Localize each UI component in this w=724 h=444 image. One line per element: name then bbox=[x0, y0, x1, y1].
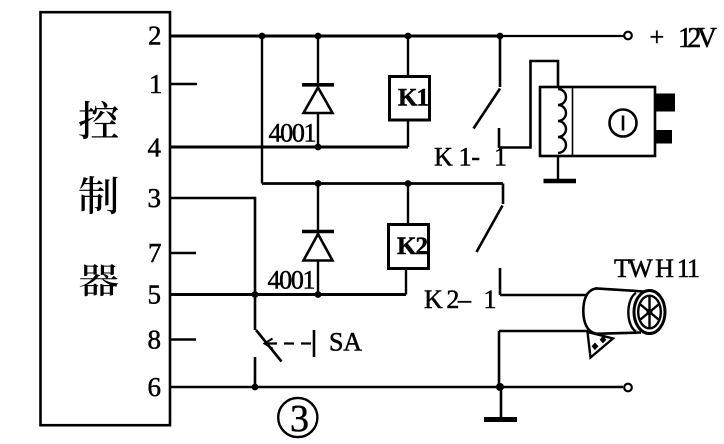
horn HA1 body bbox=[583, 288, 644, 334]
svg-text:+: + bbox=[650, 23, 665, 52]
motor M1 ground bar bbox=[544, 179, 577, 184]
horn HA1 rim arc bbox=[628, 293, 636, 332]
svg-text:8: 8 bbox=[148, 325, 162, 355]
relay coil K2 lead bottom bbox=[405, 269, 407, 295]
junction pin2/K1 bbox=[405, 33, 412, 40]
svg-text:1: 1 bbox=[149, 69, 163, 99]
relay coil K1 lead bottom bbox=[407, 120, 409, 147]
motor M1 feed wire from K1-1 bbox=[499, 61, 558, 148]
switch SA actuator dashed link bbox=[267, 342, 312, 344]
svg-text:TW H 11: TW H 11 bbox=[614, 254, 700, 283]
wire pin8 stub bbox=[171, 338, 196, 340]
horn HA1 bracket rivet 2 bbox=[600, 336, 607, 344]
figure number circle 3 bbox=[278, 398, 317, 437]
svg-text:3: 3 bbox=[290, 398, 309, 440]
wire vertical branch from pin2 bbox=[261, 36, 263, 184]
junction pin2/K1-1 bbox=[497, 33, 504, 40]
diode D1 lead bottom bbox=[317, 113, 319, 147]
switch K1-1 upper lead bbox=[499, 36, 502, 87]
controller box U1 bbox=[41, 12, 171, 425]
supply terminal circle bbox=[624, 32, 632, 40]
diode D1 cathode bar bbox=[302, 83, 334, 87]
switch K2-1 blade bbox=[477, 206, 503, 253]
motor M1 symbol bar bbox=[622, 116, 625, 131]
wire pin7 stub bbox=[171, 252, 196, 254]
svg-text:4001: 4001 bbox=[268, 266, 316, 295]
svg-text:6: 6 bbox=[148, 372, 162, 402]
diode D1 lead top bbox=[317, 36, 319, 84]
label 控 bbox=[79, 101, 118, 139]
junction branch/D2 bbox=[315, 180, 322, 187]
switch K1-1 lower contact bbox=[498, 128, 501, 148]
wire pin6 ground rail bbox=[171, 386, 623, 388]
svg-text:K 2–: K 2– bbox=[424, 285, 472, 314]
horn HA1 grille outer bbox=[634, 291, 665, 334]
horn HA1 bracket bbox=[588, 332, 614, 358]
diode D2 triangle bbox=[304, 234, 333, 261]
diode D2 cathode bar bbox=[302, 230, 334, 234]
relay coil K2 box bbox=[389, 225, 429, 269]
horn HA1 hub bbox=[647, 309, 653, 315]
junction pin2/branch bbox=[259, 33, 266, 40]
switch SA blade bbox=[256, 330, 282, 362]
svg-text:2: 2 bbox=[148, 21, 162, 51]
switch SA actuator bar bbox=[313, 330, 316, 357]
relay coil K1 box bbox=[390, 77, 430, 121]
relay coil K1 lead top bbox=[407, 36, 409, 75]
label 制 bbox=[79, 176, 117, 214]
horn HA1 bracket rivet 1 bbox=[592, 343, 599, 351]
junction pin2/D1 bbox=[315, 33, 322, 40]
horn HA1 spokes bbox=[640, 296, 660, 329]
ground symbol bar (bottom) bbox=[484, 417, 517, 422]
junction pin5/SA bbox=[252, 291, 259, 298]
ground rail terminal circle bbox=[624, 384, 632, 392]
svg-text:3: 3 bbox=[148, 183, 162, 213]
wire pin4 bbox=[171, 146, 408, 149]
wire horn to ground rail bbox=[498, 331, 501, 387]
wire K2 branch rail bbox=[262, 182, 503, 185]
svg-text:SA: SA bbox=[329, 328, 362, 357]
diode D2 lead top bbox=[317, 184, 319, 232]
junction pin5/D2 bbox=[315, 291, 322, 298]
motor M1 symbol circle bbox=[610, 110, 637, 137]
motor M1 terminal tab lower bbox=[655, 130, 672, 144]
label 器 bbox=[80, 264, 118, 296]
horn wire upper terminal bbox=[500, 294, 586, 297]
junction pin6/ground bbox=[496, 383, 504, 391]
svg-text:K 2: K 2 bbox=[397, 233, 428, 260]
ground symbol stem (bottom) bbox=[500, 387, 503, 418]
motor M1 internal partition bbox=[572, 88, 574, 156]
motor M1 case bbox=[540, 87, 655, 156]
motor M1 terminal tab upper bbox=[655, 94, 675, 112]
switch SA lower lead bbox=[254, 357, 257, 387]
junction pin4/D1 bbox=[315, 144, 322, 151]
wire pin5 bbox=[171, 293, 406, 296]
junction pin6/SA bbox=[252, 384, 259, 391]
wire pin3 bbox=[171, 198, 255, 330]
motor M1 ground stem bbox=[557, 156, 559, 179]
switch K1-1 blade bbox=[474, 89, 501, 129]
svg-text:K 1-: K 1- bbox=[434, 143, 480, 172]
svg-text:5: 5 bbox=[148, 280, 162, 310]
diode D2 lead bottom bbox=[317, 261, 319, 295]
horn wire lower terminal bbox=[499, 330, 588, 333]
relay coil K2 lead top bbox=[407, 184, 409, 224]
wire pin2 +12V rail bbox=[171, 35, 500, 38]
svg-text:K 1: K 1 bbox=[398, 85, 429, 112]
junction branch/K2 bbox=[405, 180, 412, 187]
wire rail to supply terminal bbox=[500, 35, 624, 37]
motor M1 field coil bbox=[558, 89, 566, 153]
horn HA1 grille inner bbox=[638, 296, 661, 329]
svg-text:1: 1 bbox=[484, 285, 497, 314]
wire pin1 stub bbox=[171, 83, 197, 85]
switch SA actuator arrowhead bbox=[265, 339, 273, 349]
svg-text:4001: 4001 bbox=[269, 119, 317, 148]
diode D1 triangle bbox=[304, 88, 333, 114]
svg-text:12V: 12V bbox=[678, 23, 717, 54]
switch K2-1 lower contact bbox=[499, 268, 502, 295]
svg-text:7: 7 bbox=[148, 238, 162, 268]
svg-text:4: 4 bbox=[148, 133, 162, 163]
switch K2-1 upper lead bbox=[502, 184, 505, 205]
